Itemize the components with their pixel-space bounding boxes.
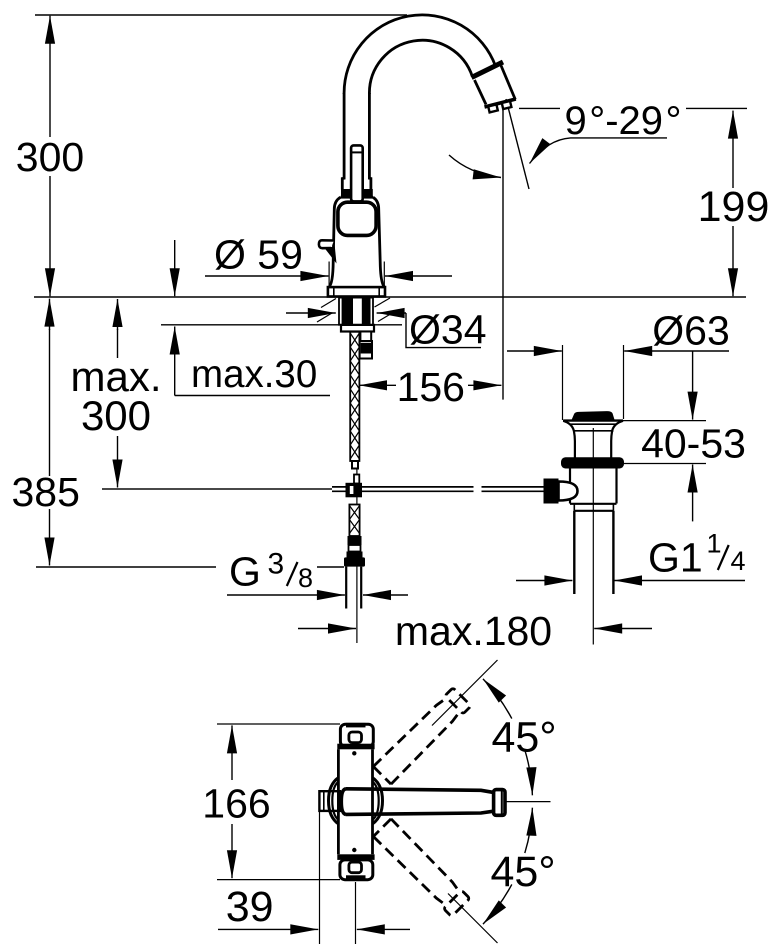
angle reference line to 199 xyxy=(519,107,747,109)
dimension 199 line xyxy=(732,111,734,297)
svg-text:Ø 59: Ø 59 xyxy=(214,232,303,278)
svg-text:199: 199 xyxy=(698,183,770,231)
faucet neck left edge xyxy=(342,93,344,190)
lever handle xyxy=(319,240,337,263)
trunk dots xyxy=(352,751,356,755)
hose connector blocks xyxy=(347,536,363,558)
dimension 39 arrows xyxy=(218,928,410,930)
counter underside line right xyxy=(372,324,402,326)
drain tailpipe xyxy=(574,511,613,594)
drain seal ring xyxy=(561,457,624,468)
pop-up rod horizontal reference xyxy=(102,488,332,490)
faucet centerline xyxy=(356,302,358,643)
svg-text:4: 4 xyxy=(731,546,746,576)
166 bottom reference line xyxy=(217,879,340,881)
left mounting block xyxy=(319,791,340,811)
385 bottom reference line xyxy=(36,566,344,568)
dimension 40-53 arrows xyxy=(692,351,694,521)
drain flange top line xyxy=(563,419,623,421)
45 thin extension line lower xyxy=(448,894,498,944)
spout nozzle xyxy=(475,66,516,105)
svg-text:max.30: max.30 xyxy=(191,353,317,396)
svg-text:39: 39 xyxy=(226,883,274,931)
faucet body outline xyxy=(329,197,341,287)
svg-text:G: G xyxy=(229,549,261,595)
166 top reference line xyxy=(217,723,340,725)
shank nut xyxy=(341,325,374,332)
threaded rod upper (hatched) xyxy=(350,332,359,461)
dimension D63 arrows xyxy=(507,350,729,352)
dimension 40-53 lower reference line xyxy=(621,463,706,465)
45 thin extension line upper xyxy=(432,660,498,726)
svg-text:1: 1 xyxy=(707,529,722,559)
spout joint ring xyxy=(472,62,504,78)
svg-text:45°: 45° xyxy=(490,848,555,896)
rod junction fitting xyxy=(346,475,363,498)
counter underside line left xyxy=(161,324,340,326)
drain plug cap xyxy=(572,411,615,420)
dimension 166 line xyxy=(231,725,233,878)
dashed swivel spout lower 45 xyxy=(372,819,470,917)
dashed swivel spout upper 45 xyxy=(373,687,471,785)
pop-up rod horizontal pipe xyxy=(332,487,544,491)
flex hose xyxy=(346,567,361,609)
45 dimension arc lower xyxy=(483,808,532,924)
swivel arc arrow xyxy=(449,155,501,178)
dimension max.180 arrows xyxy=(298,628,652,630)
water stream vertical line xyxy=(502,110,504,400)
svg-text:300: 300 xyxy=(81,392,151,439)
svg-text:166: 166 xyxy=(202,781,270,827)
drain rod knob xyxy=(544,479,578,504)
neck joint band xyxy=(341,189,373,198)
body bottom cap xyxy=(340,860,373,880)
svg-text:45°: 45° xyxy=(491,714,556,762)
svg-text:8: 8 xyxy=(298,563,313,593)
D63 extension lines xyxy=(563,345,624,420)
39 extension lines xyxy=(320,812,356,944)
45 dimension arc upper xyxy=(483,679,532,795)
angled stream line xyxy=(506,99,529,189)
D34 leader and underline xyxy=(406,313,481,348)
svg-text:385: 385 xyxy=(11,469,79,515)
body bottom band xyxy=(337,854,374,860)
svg-text:G1: G1 xyxy=(648,535,703,581)
pull rod xyxy=(351,145,363,201)
faucet spout arch outer xyxy=(344,15,496,94)
dimension 156 arrows xyxy=(359,384,501,386)
svg-text:Ø63: Ø63 xyxy=(652,308,730,354)
aerator tabs xyxy=(488,101,511,112)
spout mouth xyxy=(485,99,516,107)
angle leader underline and hook arrow xyxy=(530,138,668,164)
counter top baseline xyxy=(34,296,746,298)
solid spout xyxy=(341,789,505,816)
faucet neck right edge xyxy=(369,93,371,190)
dimension max.300 line xyxy=(117,299,119,488)
dimension 300 line xyxy=(49,16,51,297)
svg-text:40-53: 40-53 xyxy=(641,421,746,467)
dimension 40-53 upper reference line xyxy=(563,420,706,422)
dimension G3/8 arrows xyxy=(227,594,408,596)
dimension max.30 leader xyxy=(175,240,330,396)
body trunk sides xyxy=(338,749,372,854)
drain flange neck xyxy=(563,421,623,458)
drain valve body xyxy=(570,469,617,511)
svg-text:156: 156 xyxy=(397,364,465,410)
body swivel collar arcs xyxy=(329,778,383,825)
counter hatch ticks left xyxy=(317,299,336,323)
base plate xyxy=(328,287,385,296)
body top band xyxy=(337,744,374,750)
top reference line xyxy=(35,14,407,16)
rod end stub xyxy=(352,461,358,469)
svg-text:Ø34: Ø34 xyxy=(409,307,487,353)
drain centerline xyxy=(592,428,594,645)
G3/8 nut xyxy=(344,557,365,566)
max.300 bottom reference line xyxy=(102,488,332,490)
spout centerline stub xyxy=(506,801,551,803)
counter hatch ticks right xyxy=(375,298,394,322)
mounting shank xyxy=(339,298,373,325)
threaded hose upper section (hatched) xyxy=(349,505,359,537)
svg-text:300: 300 xyxy=(16,134,84,180)
dimension 385 line xyxy=(49,299,51,566)
dimension D59 arrows xyxy=(205,275,452,277)
body top cap xyxy=(340,723,373,747)
side outlet blocks xyxy=(360,332,372,359)
svg-text:max.180: max.180 xyxy=(395,608,552,654)
dimension G1 1/4 arrows xyxy=(516,580,745,582)
svg-text:3: 3 xyxy=(268,548,285,581)
faucet spout arch inner xyxy=(369,40,472,94)
dimension D34 arrows xyxy=(286,312,406,314)
escutcheon plate xyxy=(338,202,376,235)
D59 extension lines xyxy=(329,262,384,290)
